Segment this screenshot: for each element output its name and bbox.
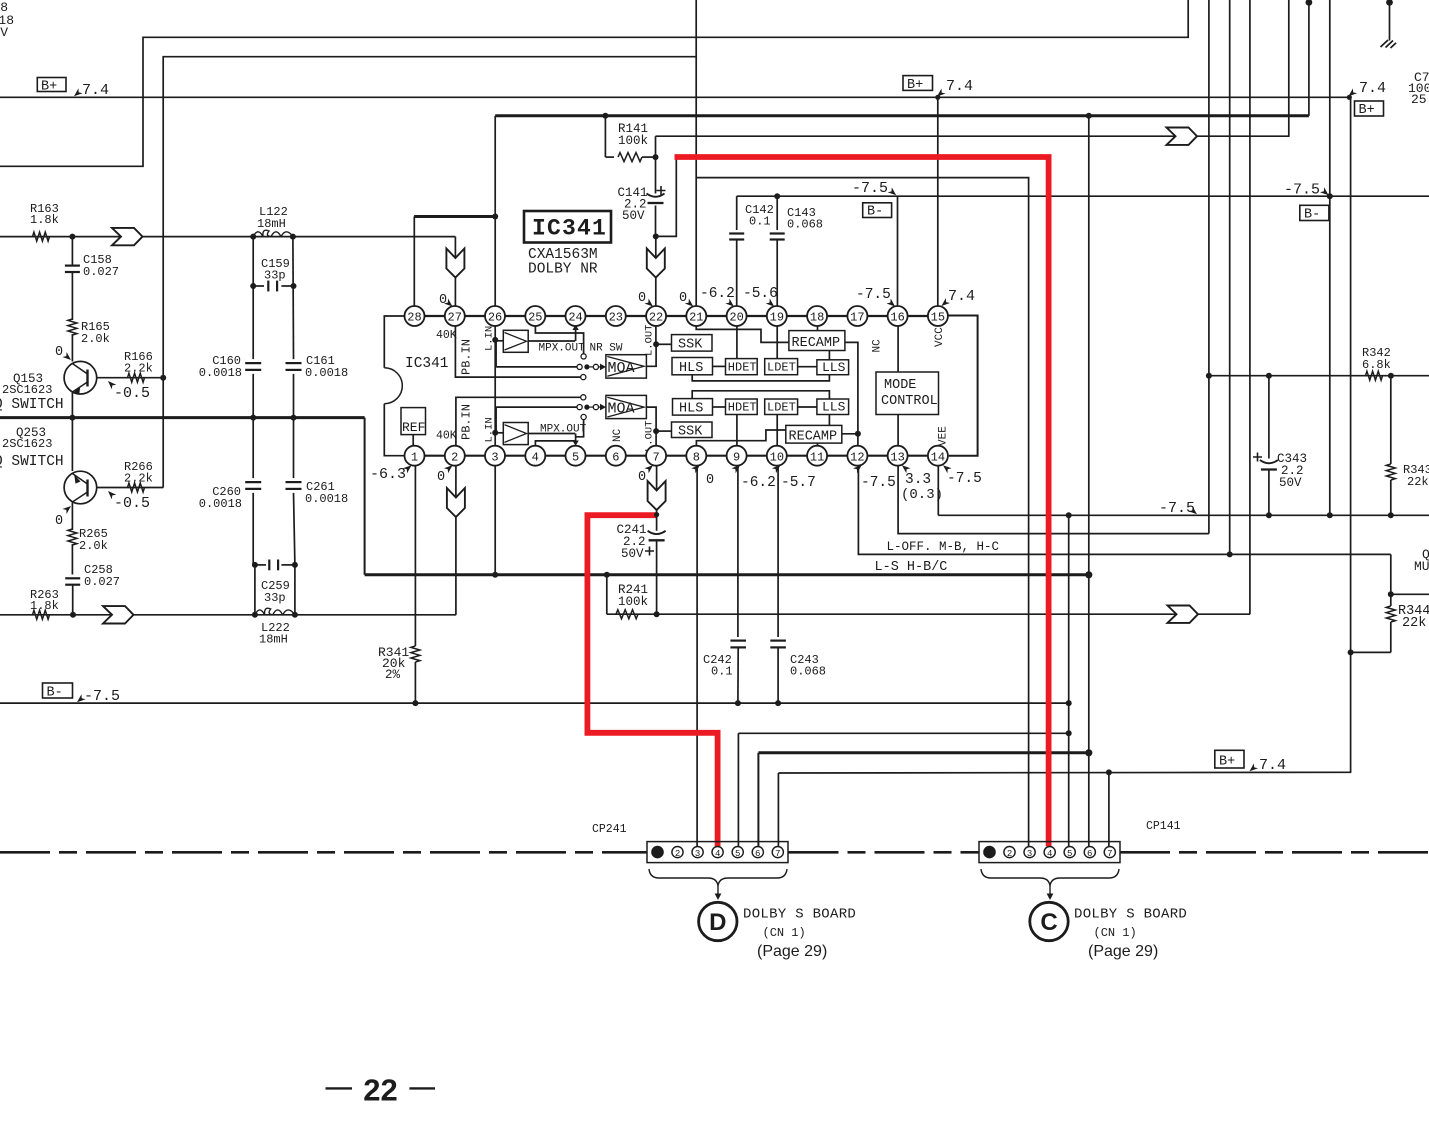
connector CP141 (979, 820, 1181, 863)
wire switch mid line upper (495, 340, 582, 370)
wire thick stub y216 to pin28 (414, 217, 495, 307)
wire LDET lower to pin10 (776, 415, 778, 447)
label NR SW (590, 343, 623, 355)
block HDET upper (726, 359, 758, 375)
svg-text:22k: 22k (1402, 616, 1426, 631)
svg-text:0.0018: 0.0018 (305, 492, 348, 506)
label L.IN lower (484, 417, 496, 442)
wire RECAMP lower right (842, 431, 861, 437)
flag B+ 7.4 bottom-right (1215, 750, 1286, 774)
svg-text:IC341: IC341 (405, 356, 449, 372)
resistor R163 1.8k (30, 202, 59, 241)
inductor L222 18mH (255, 608, 295, 646)
svg-text:1.8k: 1.8k (30, 599, 59, 613)
svg-text:19: 19 (770, 311, 784, 325)
svg-text:7.4: 7.4 (948, 288, 975, 305)
junction dot R342 right (1388, 373, 1394, 379)
capacitor C160 0.0018 (199, 354, 261, 380)
pin 23 IC341 (606, 306, 626, 326)
svg-text:HLS: HLS (679, 402, 703, 417)
resistor R263 1.8k (30, 588, 59, 619)
board boundary dash-dot line (0, 851, 1429, 854)
switch pivot lower (584, 404, 606, 411)
junction dots L122 (250, 234, 296, 240)
svg-text:0: 0 (55, 514, 63, 529)
svg-text:DOLBY S BOARD: DOLBY S BOARD (743, 907, 856, 923)
svg-text:0.068: 0.068 (787, 218, 823, 232)
junction dot R341 bottom (412, 700, 418, 706)
label 3.3 (0.3) pin13 (900, 463, 943, 503)
wire CP241 pin6 thick line y753 (758, 753, 1088, 847)
svg-text:6: 6 (1087, 849, 1092, 859)
wire pin8 to RECAMP lower (696, 430, 785, 446)
svg-text:-7.5: -7.5 (1284, 182, 1320, 199)
connector CP241 (592, 823, 788, 863)
flag B- -7.5 bottom-left (43, 683, 121, 705)
label 40K lower (436, 430, 457, 443)
op-amp MOA upper (606, 355, 647, 378)
svg-text:16: 16 (890, 311, 904, 325)
IC341 pin row lines (425, 316, 928, 456)
svg-text:7: 7 (775, 849, 780, 859)
svg-text:40K: 40K (436, 329, 457, 342)
svg-text:LDET: LDET (767, 361, 796, 375)
junction dots L222 (252, 612, 298, 618)
svg-text:6.8k: 6.8k (1362, 358, 1391, 372)
junction dot R241 right (654, 611, 660, 617)
pin 5 IC341 (566, 446, 586, 466)
svg-text:26: 26 (488, 311, 502, 325)
chevron arrow on y236 line (112, 228, 143, 245)
label L.OUT lower (644, 420, 656, 452)
svg-text:7: 7 (1107, 849, 1112, 859)
junction dot thick bus x1089 end (1085, 571, 1092, 578)
svg-text:-7.5: -7.5 (852, 180, 888, 197)
svg-text:DOLBY S BOARD: DOLBY S BOARD (1074, 907, 1187, 923)
label -7.5 pin14 (941, 463, 982, 487)
label MPX.OUT lower (540, 424, 587, 436)
pin 19 IC341 (767, 306, 787, 326)
svg-text:NC: NC (612, 428, 624, 442)
svg-text:-0.5: -0.5 (114, 495, 150, 512)
wire HDET lower to pin9 (736, 415, 738, 447)
label -6.2 pin20 (700, 286, 736, 309)
wire R342 line y375 (1209, 375, 1429, 377)
junction dot y753 x1089 (1085, 749, 1092, 756)
label VCC pin15 (934, 327, 946, 347)
label -6.3 pin1 (370, 463, 414, 483)
wire L.OUT lower to SSK and pin7 (656, 431, 671, 446)
svg-text:50V: 50V (1279, 476, 1302, 490)
wire HLS top loop lower (692, 391, 829, 399)
svg-text:Q SWITCH: Q SWITCH (0, 454, 64, 470)
capacitor C143 0.068 (770, 193, 823, 307)
label -5.6 pin19 (743, 286, 778, 309)
junction dot VEE/B- x1330 (1327, 512, 1333, 518)
svg-text:D: D (709, 909, 726, 936)
junction dot y772 CP141 pin7 (1106, 769, 1112, 775)
wire LDET-LLS lower (798, 406, 817, 408)
svg-text:-6.3: -6.3 (370, 466, 406, 483)
svg-text:2.0k: 2.0k (81, 332, 110, 346)
svg-text:3.3: 3.3 (905, 472, 931, 488)
svg-text:LLS: LLS (822, 360, 846, 375)
junction dot x495 y575 (492, 572, 498, 578)
wire L.OUT to SSK upper (656, 325, 672, 344)
junction dot thick bus x605 (602, 113, 608, 119)
svg-text:L-OFF. M-B, H-C: L-OFF. M-B, H-C (887, 540, 1000, 554)
junction dot thick bus x607 (604, 572, 610, 578)
svg-text:MUN: MUN (1414, 559, 1429, 574)
svg-text:NC: NC (872, 339, 884, 353)
svg-text:(0.3): (0.3) (901, 487, 943, 503)
junction dot R166 (160, 375, 166, 381)
svg-text:-7.5: -7.5 (856, 287, 891, 303)
pin 15 IC341 (928, 306, 948, 326)
flag B+ 7.4 top-left (37, 78, 109, 100)
wire pin15 to chip edge (947, 315, 949, 317)
resistor R265 2.0k (68, 527, 108, 575)
svg-text:Q SWITCH: Q SWITCH (0, 397, 64, 413)
svg-text:-5.6: -5.6 (743, 286, 778, 302)
svg-text:100k: 100k (618, 595, 648, 609)
svg-text:25: 25 (528, 311, 542, 325)
wire RECAMP upper right to pin12 col (845, 342, 858, 446)
junction dot L.IN lower (492, 430, 498, 436)
svg-text:0.027: 0.027 (84, 575, 120, 589)
wire pin16 to MODE CONTROL (897, 325, 899, 372)
wire CP241 pin5 line y733 (738, 733, 1068, 846)
label DOLBY S BOARD (D) (743, 907, 856, 961)
wire R263 line y615 (0, 614, 456, 616)
svg-text:33p: 33p (264, 269, 286, 283)
svg-text:4: 4 (715, 849, 720, 859)
svg-text:9: 9 (733, 450, 740, 464)
svg-text:3: 3 (695, 849, 700, 859)
wire C160 column x253 (253, 237, 255, 615)
switch pivot upper (584, 364, 606, 371)
svg-text:20: 20 (729, 311, 743, 325)
svg-text:5: 5 (1067, 849, 1072, 859)
wire MPX.OUT upper path (528, 325, 579, 341)
junction dot C258 (70, 612, 76, 618)
svg-text:CP241: CP241 (592, 823, 627, 836)
pin 22 IC341 (646, 306, 666, 326)
label IC341 title box (524, 211, 611, 278)
junction dot red-B top node (654, 512, 659, 517)
junction dot C141 bottom (653, 233, 659, 239)
resistor R241 100k (616, 583, 648, 619)
svg-text:40K: 40K (436, 430, 457, 443)
capacitor C259 33p (252, 560, 298, 606)
junction dot R141 right (653, 154, 659, 160)
capacitor C241 2.2 50V (617, 465, 666, 614)
svg-text:2.2k: 2.2k (124, 472, 153, 486)
chevron arrow above pin 27 (446, 249, 464, 278)
pin 18 IC341 (807, 306, 827, 326)
junction dot R163/C158 (69, 234, 75, 240)
svg-text:1.8k: 1.8k (30, 213, 59, 227)
wire RECAMP lower to pin11 (817, 443, 819, 446)
svg-text:27: 27 (448, 311, 462, 325)
wire B- -7.5 line y196 (737, 195, 1429, 197)
chevron arrow on y136 line (1167, 128, 1198, 145)
label VEE pin14 (938, 426, 950, 446)
label 0 pin7 (638, 463, 655, 485)
svg-text:B+: B+ (41, 80, 57, 95)
wire pin19 to LDET upper (776, 325, 778, 359)
pin 14 IC341 (928, 446, 948, 466)
wire C161 column x293 (293, 237, 295, 615)
wire R241 long line y614 (607, 613, 1250, 615)
label 0 pin27 (439, 293, 455, 309)
flag B- -7.5 mid (852, 180, 898, 220)
wire R163/L122 line y236 (0, 236, 455, 238)
chevron arrow on R241 line (1168, 606, 1199, 623)
capacitor C161 0.0018 (286, 354, 349, 380)
label 0 pin2 (437, 463, 455, 485)
svg-text:NR SW: NR SW (590, 343, 623, 355)
wire CP141 pin5 riser (1068, 515, 1070, 846)
wire pin27 drop from y236 (454, 237, 456, 307)
svg-text:28: 28 (407, 311, 421, 325)
pin 10 IC341 (767, 446, 787, 466)
svg-text:DOLBY NR: DOLBY NR (528, 262, 598, 278)
junction dot x495 y216 (492, 214, 498, 220)
wire R241 drop (606, 575, 608, 614)
svg-text:0.0018: 0.0018 (199, 366, 242, 380)
svg-text:7.4: 7.4 (946, 78, 973, 95)
svg-text:0.0018: 0.0018 (199, 497, 242, 511)
label 7.4 pin15 (939, 288, 975, 308)
capacitor C158 0.027 (65, 237, 119, 320)
svg-text:2SC1623: 2SC1623 (2, 383, 52, 397)
svg-text:0: 0 (437, 470, 445, 485)
svg-text:6: 6 (755, 849, 760, 859)
label IC341 inside chip (405, 356, 449, 372)
wire pin21 to RECAMP upper (696, 325, 789, 342)
svg-text:VCC: VCC (934, 327, 946, 347)
page number 22 (326, 1073, 436, 1108)
svg-text:(Page 29): (Page 29) (1088, 943, 1158, 960)
junction dot R342 line left (1206, 373, 1212, 379)
resistor R166 2.2k (97, 350, 164, 402)
svg-text:-7.5: -7.5 (861, 475, 896, 491)
svg-text:MODE: MODE (884, 378, 916, 393)
svg-text:50V: 50V (622, 209, 645, 223)
text fragment top-left 8/18/V (0, 0, 14, 40)
label L-OFF. M-B, H-C (887, 540, 1000, 554)
svg-text:-7.5: -7.5 (947, 471, 982, 487)
svg-text:12: 12 (850, 450, 864, 464)
svg-text:23: 23 (609, 311, 623, 325)
wire x495 column (pins 26/3) (494, 116, 496, 575)
pin 6 IC341 (606, 446, 626, 466)
pin 17 IC341 (847, 306, 867, 326)
svg-text:2: 2 (1007, 849, 1012, 859)
junction dot L.IN upper (492, 337, 498, 343)
wire switch mid line lower (496, 405, 582, 433)
pin 9 IC341 (727, 446, 747, 466)
block MODE CONTROL (876, 372, 939, 415)
wire MODE CONTROL to pin13 (897, 415, 899, 447)
pin 12 IC341 (847, 446, 867, 466)
svg-text:B+: B+ (1359, 103, 1375, 118)
svg-text:2SC1623: 2SC1623 (2, 437, 52, 451)
svg-text:C: C (1040, 909, 1057, 936)
svg-text:PB.IN: PB.IN (460, 339, 474, 375)
wire thick bus y418 (0, 416, 365, 419)
svg-text:7: 7 (652, 450, 659, 464)
svg-text:6: 6 (612, 450, 619, 464)
wire MOA upper out to L.OUT (646, 344, 656, 366)
resistor R342 6.8k (1362, 346, 1391, 380)
svg-text:0.068: 0.068 (790, 665, 826, 679)
svg-text:22k: 22k (1407, 475, 1429, 489)
label -7.5 on VEE line right (1159, 500, 1199, 517)
label NC pin6 (612, 428, 624, 442)
op-amp MOA lower (606, 395, 647, 418)
svg-text:L.OUT: L.OUT (644, 324, 656, 356)
svg-text:4: 4 (1047, 849, 1052, 859)
block SSK lower (672, 422, 713, 440)
block RECAMP upper (789, 331, 845, 351)
svg-text:CP141: CP141 (1146, 820, 1181, 833)
node dot x1309 top (1306, 0, 1313, 6)
wire L-S riser x1230 (1229, 0, 1231, 554)
REF box (401, 408, 426, 447)
amp L.IN upper (buffer) (495, 330, 528, 352)
wire HLS-HDET upper (713, 365, 726, 367)
svg-text:1: 1 (411, 450, 418, 464)
svg-text:0: 0 (439, 293, 447, 308)
wire CP141 pin6 riser (1088, 116, 1090, 847)
wire vertical to thick bus x1309 (1308, 2, 1310, 116)
junction dot L.OUT upper (653, 341, 659, 347)
wire PB.IN upper to switch (455, 325, 586, 380)
wire pin20 to HDET upper (736, 325, 738, 359)
svg-text:0.0018: 0.0018 (305, 366, 348, 380)
svg-text:0: 0 (706, 473, 714, 488)
svg-text:22: 22 (363, 1073, 397, 1108)
svg-text:-6.2: -6.2 (741, 475, 776, 491)
svg-text:(CN 1): (CN 1) (1094, 926, 1137, 940)
block SSK upper (672, 335, 713, 353)
svg-text:18mH: 18mH (259, 633, 288, 647)
svg-text:18mH: 18mH (257, 217, 286, 231)
svg-text:2: 2 (451, 450, 458, 464)
wire R344 to B+ drop (1348, 649, 1391, 655)
svg-text:22: 22 (649, 311, 663, 325)
flag B+ 7.4 top-right (1346, 80, 1386, 118)
svg-text:5: 5 (735, 849, 740, 859)
wire pin21 lower segment (695, 57, 697, 307)
svg-text:4: 4 (532, 450, 539, 464)
pin 11 IC341 (807, 446, 827, 466)
svg-text:HDET: HDET (728, 361, 757, 375)
svg-text:L.IN: L.IN (484, 417, 496, 442)
label MPX.OUT upper (539, 343, 586, 355)
wire RECAMP upper to LLS (828, 351, 830, 360)
svg-text:CONTROL: CONTROL (881, 394, 938, 409)
wire pin2 drop to y615 (447, 465, 465, 615)
svg-text:B-: B- (1304, 208, 1320, 223)
wire top-left inner L (net to off-page top) (163, 0, 696, 488)
svg-text:REF: REF (402, 420, 425, 435)
node C (to DOLBY S BOARD) (1030, 902, 1068, 940)
junction dot y733 x1069 (1066, 730, 1072, 736)
label -7.5 pin16 (856, 287, 897, 309)
svg-text:3: 3 (1027, 849, 1032, 859)
resistor R141 100k (605, 116, 655, 162)
capacitor C260 0.0018 (199, 482, 261, 511)
resistor R165 2.0k (68, 319, 110, 362)
svg-text:14: 14 (931, 450, 945, 464)
resistor R343 22k (1386, 376, 1429, 519)
svg-text:2.0k: 2.0k (79, 539, 108, 553)
label L.OUT upper (644, 324, 656, 356)
svg-text:RECAMP: RECAMP (792, 336, 841, 351)
svg-text:0: 0 (55, 345, 63, 360)
svg-text:33p: 33p (264, 591, 286, 605)
pin 24 IC341 (566, 306, 586, 326)
svg-text:B+: B+ (907, 78, 923, 93)
pin 1 IC341 (405, 446, 425, 466)
svg-text:IC341: IC341 (532, 216, 607, 242)
label 0 pin22 (638, 291, 655, 309)
wire drop to pin16 (897, 196, 899, 307)
svg-text:50V: 50V (621, 547, 644, 561)
wire MOA lower out to L.OUT (646, 407, 656, 431)
block HLS lower (673, 399, 713, 417)
label PB.IN lower (460, 404, 474, 440)
wire thick bus y575 (365, 573, 1089, 576)
label DOLBY S BOARD (C) (1074, 907, 1187, 961)
capacitor C142 0.1 (729, 196, 774, 307)
pin 20 IC341 (727, 306, 747, 326)
wire L-S line (858, 465, 1390, 554)
capacitor C343 2.2 50V (1253, 373, 1307, 519)
svg-text:10: 10 (770, 450, 784, 464)
svg-text:L-S H-B/C: L-S H-B/C (875, 560, 948, 575)
wire L-OFF line (898, 447, 1209, 534)
svg-text:PB.IN: PB.IN (460, 404, 474, 440)
pin 7 IC341 (646, 446, 666, 466)
svg-text:(Page 29): (Page 29) (757, 943, 827, 960)
wire pin8 drop to CP241 pin3 (696, 465, 698, 847)
wire x655 C141 column (655, 136, 657, 236)
wire CP241 pin7 line y772 (778, 772, 1351, 846)
svg-text:0.027: 0.027 (83, 265, 119, 279)
svg-text:MPX.OUT: MPX.OUT (539, 343, 586, 355)
svg-text:B-: B- (47, 686, 63, 701)
pin 27 IC341 (445, 306, 465, 326)
svg-text:VEE: VEE (938, 426, 950, 446)
svg-text:B-: B- (867, 205, 883, 220)
pin 21 IC341 (686, 306, 706, 326)
junction dots on y418 bus (69, 415, 296, 421)
svg-text:11: 11 (810, 450, 824, 464)
flag B+ 7.4 mid-top (903, 76, 973, 100)
brace CP241 group (649, 869, 787, 900)
label 40K upper (436, 329, 457, 342)
red wire B (C241 node to CP241 pin 4) (587, 515, 717, 846)
svg-text:V: V (0, 25, 8, 40)
label 0 at Q253 (55, 504, 73, 529)
svg-text:7.4: 7.4 (1259, 757, 1286, 774)
wire y136 to top right (656, 0, 1289, 136)
wire L-OFF riser x1209 (1208, 0, 1210, 534)
